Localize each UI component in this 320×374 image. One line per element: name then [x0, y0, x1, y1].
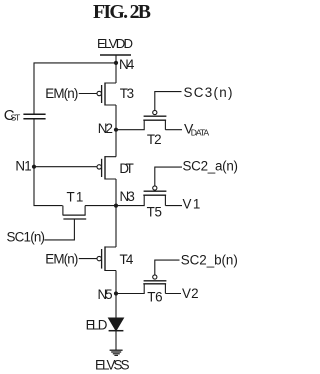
svg-text:1: 1	[24, 158, 31, 173]
svg-text:EM(n): EM(n)	[45, 251, 78, 266]
svg-text:T: T	[126, 161, 134, 176]
svg-text:T: T	[15, 112, 21, 122]
svg-text:SC2_b(n): SC2_b(n)	[181, 253, 238, 268]
svg-text:V: V	[182, 286, 191, 301]
svg-text:EM(n): EM(n)	[45, 86, 78, 101]
svg-text:SC2_a(n): SC2_a(n)	[183, 158, 239, 173]
svg-text:3: 3	[127, 86, 134, 101]
svg-text:ELVSS: ELVSS	[95, 358, 130, 373]
svg-text:D: D	[98, 318, 108, 333]
svg-text:ELVDD: ELVDD	[97, 36, 133, 51]
svg-text:1: 1	[193, 197, 200, 212]
svg-text:2: 2	[106, 121, 113, 136]
svg-text:SC3(n): SC3(n)	[184, 85, 233, 100]
svg-text:4: 4	[127, 57, 135, 72]
svg-text:DATA: DATA	[191, 127, 210, 137]
svg-text:3: 3	[127, 189, 134, 204]
svg-text:T: T	[67, 189, 75, 204]
svg-text:5: 5	[105, 287, 112, 302]
svg-text:2: 2	[154, 132, 161, 147]
svg-text:V: V	[183, 197, 192, 212]
svg-text:6: 6	[155, 290, 162, 305]
svg-text:SC1(n): SC1(n)	[7, 230, 46, 245]
svg-text:4: 4	[126, 252, 134, 267]
svg-text:FIG. 2B: FIG. 2B	[93, 1, 151, 23]
svg-text:2: 2	[191, 286, 198, 301]
svg-text:5: 5	[155, 204, 162, 219]
svg-text:1: 1	[76, 189, 83, 204]
